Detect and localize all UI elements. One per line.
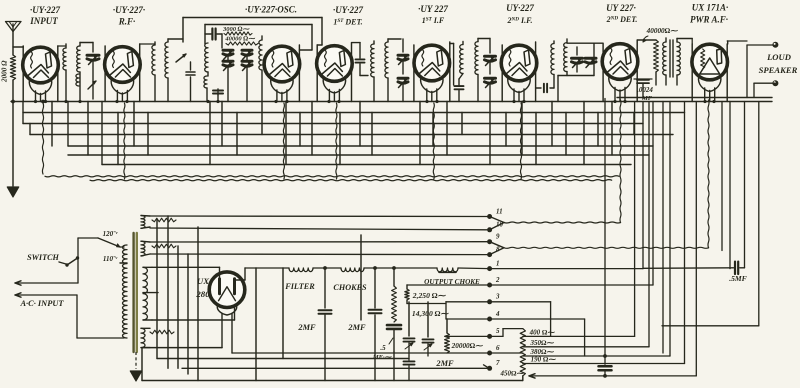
tube UY-227 1st DET V4 base — [323, 78, 345, 93]
wire T1 side leads — [23, 46, 58, 102]
coil L2 tickler — [76, 74, 79, 86]
svg-text:SWITCH: SWITCH — [27, 253, 59, 262]
svg-text:2MF: 2MF — [435, 359, 454, 368]
resistor 3000 ohm — [224, 32, 252, 35]
label 2MF a — [297, 323, 316, 332]
svg-text:7: 7 — [496, 359, 500, 367]
AF transformer core — [670, 40, 673, 77]
osc inner box — [205, 25, 312, 51]
tube UY-227 1st IF V5 base — [421, 78, 443, 93]
IFT2 secondary coil — [475, 39, 490, 102]
transformer drop 6 — [141, 348, 143, 381]
bottom rail 380 — [142, 376, 523, 381]
loud speaker terminal 2 — [754, 80, 778, 86]
tube UY-227 OSC V3 base — [271, 79, 293, 94]
bottom rail 358 — [157, 358, 409, 360]
tube UY-227 2nd IF V6 — [501, 45, 537, 81]
capacitor C2 — [186, 62, 195, 102]
transformer drop 1 — [156, 220, 158, 359]
svg-text:4: 4 — [495, 310, 500, 318]
tube UX-171A PWR AF V8 base — [698, 77, 720, 92]
fan wire 350 tap riser — [523, 102, 649, 347]
label 40000 ohm osc — [224, 36, 256, 43]
bus wire G — [102, 102, 631, 165]
terminal 4 wire — [490, 319, 585, 356]
capacitor C5 — [352, 43, 368, 76]
svg-text:190 Ω⁓: 190 Ω⁓ — [531, 356, 557, 364]
IFT2 trimmer a — [485, 39, 496, 75]
svg-text:400 Ω⁓: 400 Ω⁓ — [529, 328, 556, 336]
tube UX-171A PWR AF V8 — [692, 44, 728, 80]
label UY-227 2nd DET — [606, 3, 638, 24]
svg-text:3: 3 — [495, 293, 500, 301]
svg-text:2MF: 2MF — [297, 323, 316, 332]
svg-text:SPEAKER: SPEAKER — [759, 65, 798, 75]
label UX-171A PWR AF — [690, 3, 728, 25]
fan wire 400 tap riser — [503, 102, 635, 337]
label FILTER — [284, 282, 315, 291]
bottom rail 374 — [182, 367, 490, 369]
transformer core — [134, 233, 137, 352]
IFT1 secondary coil — [385, 39, 401, 102]
osc trimmer C3b — [242, 50, 252, 60]
transformer drop 3 — [177, 246, 179, 368]
svg-text:·UY 227: ·UY 227 — [418, 4, 448, 14]
fan wire 450 rail riser — [529, 102, 696, 376]
wire T5 side leads — [414, 42, 450, 102]
divider resistor 2250 — [405, 285, 490, 304]
wavy bus H2 — [90, 180, 612, 181]
wire t4 link — [446, 318, 490, 320]
tube UY-227 RF V2 base leads — [117, 91, 127, 102]
svg-text:11: 11 — [496, 207, 503, 215]
mid drop a — [255, 268, 257, 381]
label 40000 ohm det — [643, 27, 678, 42]
tube UY-227 RF V2 base — [111, 79, 133, 94]
label UY-227 2nd IF — [506, 3, 534, 25]
svg-text:UX: UX — [197, 276, 210, 286]
svg-text:FILTER: FILTER — [284, 282, 315, 291]
secondary S2 coil — [141, 241, 150, 256]
transformer drop 5 — [197, 227, 199, 381]
IFT3 trimmer b — [585, 58, 596, 68]
rail S1a — [150, 215, 487, 218]
fan wire 190 tap riser — [523, 102, 685, 364]
svg-text:1ST I.F: 1ST I.F — [422, 16, 445, 25]
osc coil L5 — [205, 43, 208, 76]
filter choke 2 coil — [341, 268, 364, 272]
coil L2 secondary — [77, 46, 80, 72]
tube UY-227 OSC V3 base leads — [277, 90, 287, 102]
secondary S3 HV coil — [143, 267, 158, 320]
label AC INPUT — [19, 299, 64, 308]
IFT2 trimmer b — [485, 78, 496, 102]
fan wire V8 base a — [721, 102, 723, 251]
capacitor C6 — [455, 79, 464, 102]
wire speaker lead 2 — [617, 83, 772, 97]
svg-text:110ˉᵛ: 110ˉᵛ — [103, 255, 118, 263]
filter choke 1 coil — [289, 268, 313, 272]
bus wire C — [23, 102, 643, 124]
svg-text:2ND I.F.: 2ND I.F. — [507, 16, 533, 25]
tube UX-171A PWR AF V8 base leads — [705, 88, 715, 102]
fan wire t2 riser — [490, 102, 653, 286]
osc trimmer C3c — [223, 61, 233, 71]
secondary S4 coil — [141, 328, 150, 347]
fan wire t1 riser — [490, 102, 643, 269]
bus wire D — [30, 124, 673, 135]
secondary S1 coil — [141, 216, 150, 229]
tube UY-227 INPUT V1 — [23, 47, 59, 83]
IFT3 trimmer a — [572, 47, 583, 72]
osc padder cap C4 — [213, 89, 223, 102]
bleeder resistor upper — [392, 266, 397, 322]
transformer drop 2 — [167, 216, 169, 368]
label UX 280 — [195, 276, 210, 299]
tube UY-227 OSC V3 — [264, 46, 300, 82]
tube UY-227 RF V2 — [105, 47, 141, 83]
wire IFT3 plate lead — [536, 87, 541, 89]
label 3000 ohm — [222, 26, 251, 33]
wire L1 — [58, 44, 66, 102]
label UY-227-OSC — [245, 5, 297, 15]
svg-text:·UY·227·OSC.: ·UY·227·OSC. — [245, 5, 297, 15]
terminal pair 11-10 merge — [490, 217, 504, 230]
AF transformer secondary — [677, 39, 692, 86]
svg-text:UX 171A·: UX 171A· — [692, 3, 729, 13]
svg-text:UY 227·: UY 227· — [606, 3, 636, 13]
small caps cluster c — [423, 302, 434, 356]
svg-text:14,300 Ω⁓: 14,300 Ω⁓ — [412, 309, 450, 318]
resistor hum S1 — [152, 218, 176, 222]
mid drop b — [282, 268, 284, 359]
trimmer arrow C2 — [176, 54, 186, 62]
osc coil L6 tickler — [204, 76, 207, 102]
capacitor .5MF main — [387, 325, 401, 380]
svg-text:2000 Ω: 2000 Ω — [1, 60, 9, 83]
capacitor .0024 MF — [634, 79, 652, 99]
svg-text:A·C· INPUT: A·C· INPUT — [19, 299, 64, 308]
label .5MF main — [372, 338, 393, 361]
bus wire B — [23, 112, 685, 114]
tube UY-227 1st DET V4 base leads — [329, 90, 339, 102]
IFT3 primary coil — [551, 41, 554, 75]
antenna — [6, 22, 22, 32]
wire 280 filament leads — [222, 314, 232, 353]
svg-text:INPUT: INPUT — [29, 16, 58, 26]
fan wire t6 riser — [232, 102, 663, 354]
resistor hum S2 — [152, 244, 176, 248]
transformer primary coil — [123, 245, 127, 338]
bus wire F — [68, 154, 649, 156]
output choke coil — [437, 268, 458, 272]
svg-text:120ˉᵛ: 120ˉᵛ — [103, 230, 119, 238]
IFT1 primary coil — [371, 41, 374, 102]
svg-text:2ND DET.: 2ND DET. — [606, 15, 638, 24]
wavy heater drops — [124, 103, 522, 179]
svg-text:20000Ω⁓: 20000Ω⁓ — [451, 342, 483, 350]
tube UY-227 2nd DET V7 base — [609, 76, 631, 91]
svg-text:CHOKES: CHOKES — [333, 283, 367, 292]
osc wires — [222, 34, 247, 102]
tube UY-227 2nd IF V6 base — [508, 78, 530, 93]
switch tap 120V — [98, 238, 124, 247]
label 110V — [103, 255, 127, 263]
tube UX-280 rectifier — [209, 272, 245, 308]
resistor hum S4 — [150, 330, 174, 334]
wire T2 side leads — [105, 44, 140, 102]
wire T8 side leads — [692, 44, 727, 102]
svg-text:.0024: .0024 — [637, 86, 653, 94]
resistor 40000 ohm det plate — [638, 40, 659, 85]
label .0024 MF — [637, 86, 653, 102]
tuning capacitor C1 — [87, 43, 99, 100]
label LOUD SPEAKER — [759, 52, 798, 75]
bottom rail 347 — [142, 347, 222, 349]
label UY-227 1st DET — [333, 5, 363, 27]
svg-text:PWR A.F·: PWR A.F· — [690, 15, 728, 25]
wire T4 side leads — [317, 43, 351, 102]
AC line 1 — [15, 281, 78, 285]
bias tap 400 — [529, 328, 556, 336]
svg-text:UY·227: UY·227 — [506, 3, 534, 13]
IFT2 primary coil — [459, 42, 463, 80]
wavy heater pair 9-8 — [504, 100, 709, 248]
label UY-227 RF — [113, 5, 145, 27]
AF transformer primary — [663, 38, 666, 85]
wire T7 side leads — [603, 40, 637, 102]
label 2MF c — [435, 359, 454, 368]
wire 280 plate 1 — [152, 267, 220, 277]
coil L3 primary — [140, 42, 155, 102]
resistor 40000 ohm osc — [226, 42, 258, 45]
label UY-227 INPUT — [29, 5, 60, 26]
AC line 2 — [15, 293, 77, 297]
tube UY-227 2nd DET V7 base leads — [615, 88, 625, 102]
label UY-227 1st IF — [418, 4, 448, 25]
wavy heater pair 11-10 — [504, 100, 621, 223]
label 14300 ohm — [412, 309, 450, 318]
rail S1b — [150, 228, 487, 230]
label 2250 ohm — [412, 291, 447, 300]
bias chain resistor — [520, 329, 525, 376]
wire AC to primary — [77, 295, 124, 338]
tube UY-227 2nd IF V6 base leads — [514, 89, 524, 102]
label OUTPUT CHOKE — [424, 278, 480, 286]
resistor 2000 ohm antenna shunt — [10, 55, 15, 80]
label 120V — [103, 230, 119, 238]
wire right return — [662, 102, 759, 326]
coil L1 primary — [63, 48, 66, 70]
bus wire A ground — [11, 101, 772, 103]
bias bottom arrow — [529, 374, 535, 378]
grid bias capacitor — [599, 356, 612, 376]
terminal 3 wire — [490, 302, 551, 337]
switch symbol — [65, 256, 79, 266]
tube UY-227 1st IF V5 base leads — [427, 89, 437, 102]
tube UY-227 1st IF V5 — [414, 45, 450, 81]
wire T3 side leads — [298, 45, 300, 102]
svg-text:2: 2 — [495, 276, 500, 284]
svg-text:2MF: 2MF — [347, 323, 366, 332]
stage drop wires — [52, 102, 634, 165]
svg-text:·UY·227·: ·UY·227· — [113, 5, 145, 15]
tube UY-227 INPUT V1 base — [29, 80, 51, 95]
label CHOKES — [333, 283, 367, 292]
terminal 7 arrow — [484, 365, 489, 368]
wire antenna lead — [12, 32, 14, 56]
transformer drop 4 — [187, 254, 189, 374]
capacitor 2MF a — [319, 266, 332, 380]
terminal 5 wire — [447, 329, 503, 337]
osc trimmer C3a — [223, 50, 233, 60]
IFT1 trimmer a — [398, 39, 408, 74]
label .5MF out — [729, 274, 747, 283]
trimmer arrow C1b — [88, 81, 96, 89]
wavy bus H — [41, 100, 619, 177]
svg-text:350Ω⁓: 350Ω⁓ — [530, 339, 555, 347]
resistor 20000 ohm — [445, 319, 450, 353]
wire 280 plate 2 — [152, 306, 235, 320]
wire speaker lead 1 — [746, 45, 748, 98]
svg-text:.5MF: .5MF — [729, 274, 747, 283]
svg-text:9: 9 — [496, 233, 500, 241]
svg-text:LOUD: LOUD — [766, 52, 791, 62]
terminal pair 9-8 merge — [490, 242, 504, 255]
wire switch loop — [78, 238, 98, 283]
loud speaker terminal 1 — [747, 42, 778, 48]
fan wire 380 tap riser — [523, 102, 670, 357]
label 2MF b — [347, 323, 366, 332]
svg-text:R.F·: R.F· — [118, 17, 136, 27]
svg-text:2,250 Ω⁓: 2,250 Ω⁓ — [412, 291, 447, 300]
bias tap 350 — [530, 339, 555, 347]
core dashed lead — [135, 352, 137, 369]
bias tap 190 — [531, 356, 557, 364]
bias tap 380 — [530, 348, 555, 356]
ground arrow antenna — [7, 187, 19, 197]
svg-text:6: 6 — [496, 344, 500, 352]
svg-text:3000 Ω⁓: 3000 Ω⁓ — [222, 26, 251, 33]
label 2000 ohm — [1, 60, 9, 83]
svg-text:·UY·227: ·UY·227 — [333, 5, 363, 15]
fan wire V8 base b — [729, 102, 731, 269]
svg-text:40000Ω⁓: 40000Ω⁓ — [646, 27, 678, 35]
osc outer box — [183, 18, 322, 46]
osc grid coil — [259, 36, 262, 102]
coil L4 secondary — [165, 39, 183, 102]
wire T8 plate up — [727, 41, 747, 44]
mid drop c — [360, 235, 362, 320]
svg-text:450Ω⁓: 450Ω⁓ — [500, 370, 525, 378]
small caps cluster b — [404, 356, 415, 381]
wire T6 side leads — [502, 42, 535, 102]
wire L2 — [80, 43, 93, 102]
svg-text:.5: .5 — [380, 344, 386, 352]
osc trimmer C3d — [242, 61, 252, 71]
svg-text:·UY·227: ·UY·227 — [30, 5, 60, 15]
ground arrow transformer — [130, 371, 142, 381]
capacitor .5MF out — [643, 262, 745, 275]
svg-text:40000 Ω⁓: 40000 Ω⁓ — [224, 36, 256, 43]
tube UX-280 base — [217, 305, 236, 315]
rail S2b — [150, 253, 487, 256]
rail S2a — [150, 241, 487, 243]
wire IFT2 plate lead — [450, 44, 454, 86]
osc grid capacitor — [205, 29, 222, 40]
capacitor C7 — [544, 75, 554, 93]
label 20000 ohm — [451, 342, 483, 350]
wire antenna to ground bus — [11, 47, 23, 186]
fan wire bias cap feed — [603, 99, 607, 378]
terminal strip 1-11 — [487, 207, 503, 370]
junction dots bus A — [34, 100, 716, 103]
tube UY-227 2nd DET V7 — [602, 44, 638, 80]
small caps cluster a — [404, 302, 415, 356]
label 450 ohm — [500, 370, 525, 378]
svg-text:5: 5 — [496, 327, 500, 335]
svg-text:1: 1 — [496, 259, 500, 267]
divider node wires — [407, 302, 490, 319]
capacitor 2MF b — [369, 266, 382, 380]
svg-text:MF·⁓: MF·⁓ — [372, 354, 393, 361]
bus wire E — [68, 102, 653, 147]
label SWITCH — [27, 253, 66, 264]
tube UY-227 INPUT V1 base leads — [36, 91, 46, 102]
wire .5MF ground — [744, 102, 746, 268]
IFT3 secondary coil — [564, 39, 567, 76]
B+ line — [235, 268, 490, 280]
tube UY-227 1st DET V4 — [317, 46, 353, 82]
IFT3 box — [558, 43, 603, 101]
IFT1 trimmer b — [398, 78, 408, 102]
